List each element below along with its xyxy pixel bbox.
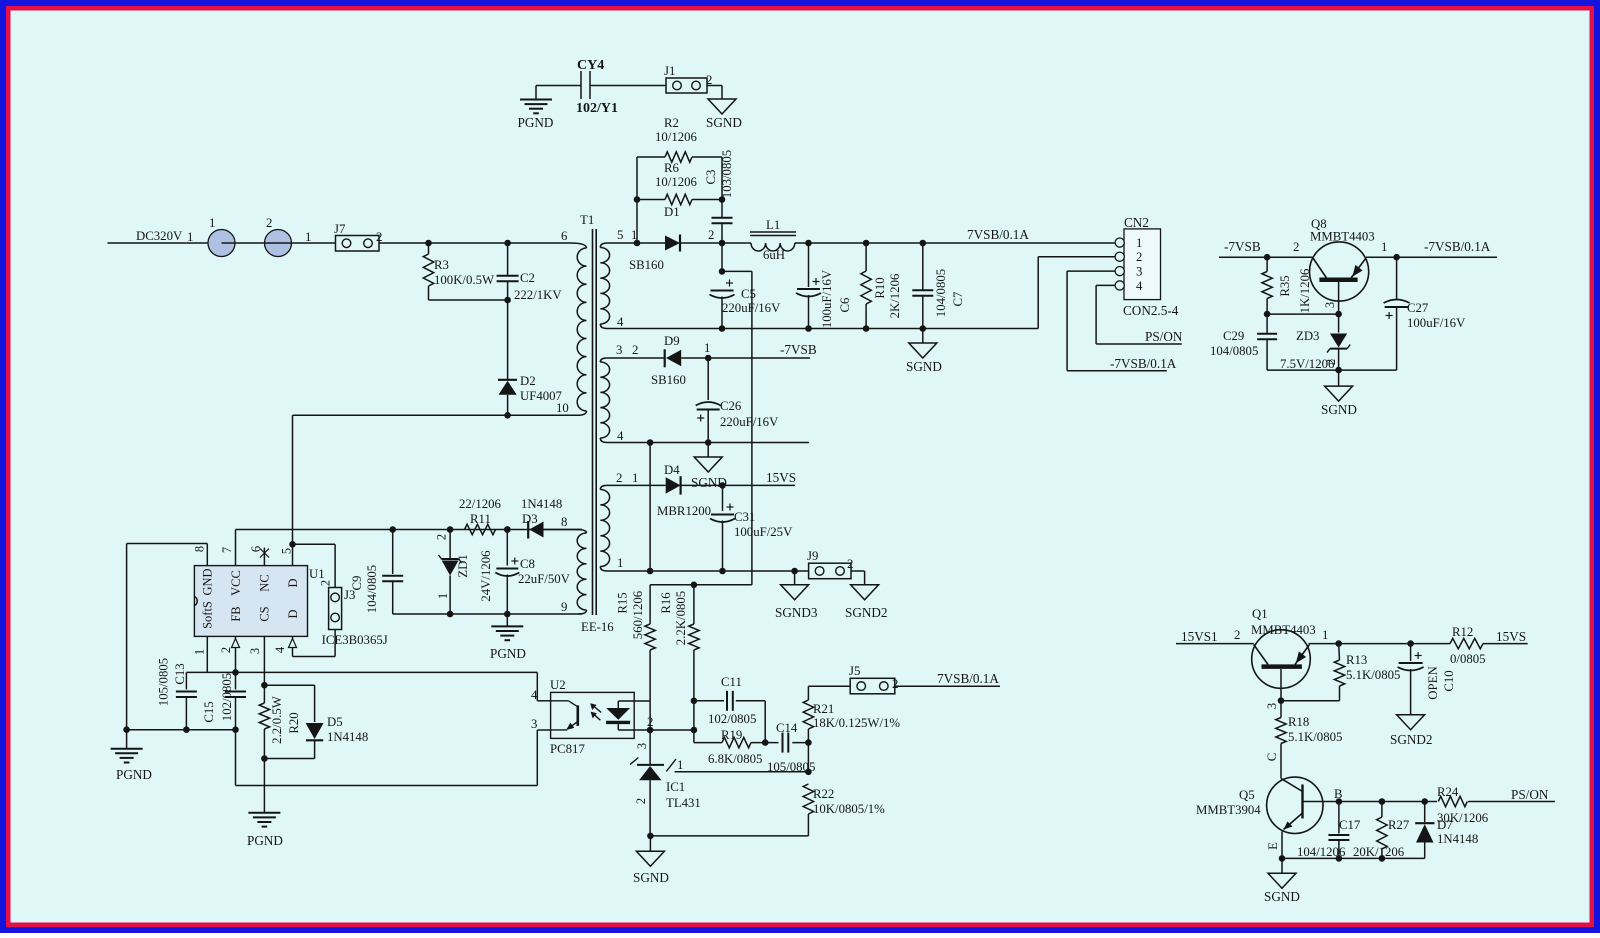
svg-text:R22: R22 bbox=[813, 787, 834, 801]
svg-text:2.2K/0805: 2.2K/0805 bbox=[674, 591, 688, 645]
svg-text:D7: D7 bbox=[1437, 818, 1453, 832]
svg-text:VCC: VCC bbox=[229, 570, 243, 596]
svg-text:GND: GND bbox=[201, 568, 215, 595]
svg-text:104/0805: 104/0805 bbox=[934, 269, 948, 317]
svg-text:SGND2: SGND2 bbox=[845, 605, 888, 620]
svg-text:2K/1206: 2K/1206 bbox=[888, 273, 902, 318]
svg-text:2: 2 bbox=[892, 677, 898, 691]
svg-text:-7VSB: -7VSB bbox=[1224, 239, 1261, 254]
svg-text:15VS: 15VS bbox=[766, 470, 796, 485]
svg-text:CY4: CY4 bbox=[577, 58, 604, 73]
svg-text:1: 1 bbox=[193, 649, 207, 655]
svg-text:C13: C13 bbox=[173, 663, 187, 684]
svg-text:100uF/25V: 100uF/25V bbox=[734, 525, 793, 539]
svg-text:15VS1: 15VS1 bbox=[1181, 629, 1218, 644]
svg-text:104/0805: 104/0805 bbox=[365, 565, 379, 613]
svg-text:R12: R12 bbox=[1452, 625, 1473, 639]
svg-text:D9: D9 bbox=[664, 334, 680, 348]
svg-text:OPEN: OPEN bbox=[1426, 666, 1440, 699]
svg-text:C26: C26 bbox=[720, 399, 742, 413]
svg-text:E: E bbox=[1266, 842, 1280, 850]
svg-text:3: 3 bbox=[248, 648, 262, 654]
svg-text:R10: R10 bbox=[873, 277, 887, 298]
svg-text:C8: C8 bbox=[520, 557, 535, 571]
svg-text:2: 2 bbox=[1234, 628, 1240, 642]
svg-text:NC: NC bbox=[258, 574, 272, 591]
svg-text:C15: C15 bbox=[202, 701, 216, 722]
svg-text:PGND: PGND bbox=[518, 115, 554, 130]
svg-text:2: 2 bbox=[634, 798, 648, 804]
svg-text:R2: R2 bbox=[664, 116, 679, 130]
svg-text:7: 7 bbox=[220, 547, 234, 553]
svg-text:C7: C7 bbox=[951, 291, 965, 307]
svg-text:L1: L1 bbox=[766, 218, 780, 232]
svg-text:22/1206: 22/1206 bbox=[459, 497, 502, 511]
svg-text:8: 8 bbox=[193, 546, 207, 552]
svg-text:C14: C14 bbox=[776, 721, 798, 735]
svg-text:R24: R24 bbox=[1437, 785, 1459, 799]
svg-text:C11: C11 bbox=[721, 675, 742, 689]
svg-text:U2: U2 bbox=[550, 678, 566, 692]
svg-text:1: 1 bbox=[677, 758, 683, 772]
svg-text:D: D bbox=[286, 609, 300, 618]
svg-text:CON2.5-4: CON2.5-4 bbox=[1123, 303, 1179, 318]
svg-text:10/1206: 10/1206 bbox=[655, 175, 698, 189]
svg-text:220uF/16V: 220uF/16V bbox=[720, 415, 779, 429]
svg-text:CN2: CN2 bbox=[1124, 215, 1149, 230]
svg-text:PGND: PGND bbox=[247, 833, 283, 848]
svg-text:1K/1206: 1K/1206 bbox=[1298, 268, 1312, 313]
svg-text:10/1206: 10/1206 bbox=[655, 130, 698, 144]
svg-text:U1: U1 bbox=[309, 567, 325, 581]
svg-text:PS/ON: PS/ON bbox=[1145, 329, 1183, 344]
svg-text:5.1K/0805: 5.1K/0805 bbox=[1346, 668, 1400, 682]
svg-text:FB: FB bbox=[229, 606, 243, 621]
svg-text:6uH: 6uH bbox=[763, 248, 785, 262]
svg-text:EE-16: EE-16 bbox=[581, 620, 614, 634]
svg-text:1: 1 bbox=[209, 216, 215, 230]
svg-text:24V/1206: 24V/1206 bbox=[479, 550, 493, 602]
svg-text:1: 1 bbox=[632, 471, 638, 485]
svg-text:105/0805: 105/0805 bbox=[157, 658, 171, 706]
svg-text:102/0805: 102/0805 bbox=[708, 712, 756, 726]
svg-text:PGND: PGND bbox=[490, 646, 526, 661]
svg-text:R20: R20 bbox=[287, 712, 301, 733]
svg-text:10: 10 bbox=[556, 401, 569, 415]
svg-text:C17: C17 bbox=[1339, 818, 1361, 832]
svg-text:C5: C5 bbox=[741, 287, 756, 301]
svg-text:2: 2 bbox=[632, 343, 638, 357]
svg-text:15VS: 15VS bbox=[1496, 629, 1526, 644]
svg-text:100K/0.5W: 100K/0.5W bbox=[434, 273, 495, 287]
svg-text:3: 3 bbox=[1323, 302, 1337, 308]
svg-text:2: 2 bbox=[1293, 240, 1299, 254]
svg-text:100uF/16V: 100uF/16V bbox=[820, 269, 834, 328]
svg-text:6.8K/0805: 6.8K/0805 bbox=[708, 752, 762, 766]
svg-text:220uF/16V: 220uF/16V bbox=[722, 301, 781, 315]
svg-text:2: 2 bbox=[1324, 359, 1338, 365]
svg-text:J5: J5 bbox=[849, 664, 860, 678]
svg-text:D2: D2 bbox=[520, 374, 536, 388]
svg-text:R21: R21 bbox=[813, 702, 834, 716]
svg-text:103/0805: 103/0805 bbox=[720, 150, 734, 198]
svg-text:PGND: PGND bbox=[116, 767, 152, 782]
svg-text:104/0805: 104/0805 bbox=[1210, 344, 1258, 358]
svg-text:J7: J7 bbox=[334, 222, 346, 236]
svg-text:1: 1 bbox=[436, 593, 450, 599]
svg-text:100uF/16V: 100uF/16V bbox=[1407, 316, 1466, 330]
svg-text:CS: CS bbox=[258, 606, 272, 621]
svg-text:R19: R19 bbox=[721, 728, 742, 742]
svg-text:5: 5 bbox=[617, 228, 623, 242]
svg-text:MBR1200: MBR1200 bbox=[657, 504, 711, 518]
svg-text:3: 3 bbox=[635, 743, 649, 749]
svg-text:2.2/0.5W: 2.2/0.5W bbox=[270, 695, 284, 744]
svg-text:R16: R16 bbox=[659, 592, 673, 614]
svg-text:SoftS: SoftS bbox=[201, 601, 215, 629]
svg-text:2: 2 bbox=[266, 216, 272, 230]
svg-text:C3: C3 bbox=[704, 170, 718, 185]
svg-text:J9: J9 bbox=[807, 549, 818, 563]
svg-text:IC1: IC1 bbox=[666, 780, 685, 794]
svg-text:SGND2: SGND2 bbox=[1390, 732, 1433, 747]
svg-text:1N4148: 1N4148 bbox=[521, 497, 562, 511]
svg-text:C6: C6 bbox=[838, 297, 852, 313]
svg-text:2: 2 bbox=[435, 534, 449, 540]
svg-text:ICE3B0365J: ICE3B0365J bbox=[322, 633, 388, 647]
svg-text:SGND: SGND bbox=[633, 870, 669, 885]
svg-text:2: 2 bbox=[616, 471, 622, 485]
svg-text:C10: C10 bbox=[1442, 670, 1456, 691]
svg-text:T1: T1 bbox=[580, 213, 594, 227]
svg-text:C9: C9 bbox=[350, 576, 364, 591]
svg-text:1: 1 bbox=[187, 230, 193, 244]
svg-text:D1: D1 bbox=[664, 205, 680, 219]
svg-text:2: 2 bbox=[708, 228, 714, 242]
svg-text:6: 6 bbox=[561, 229, 568, 243]
svg-text:-7VSB/0.1A: -7VSB/0.1A bbox=[1424, 239, 1491, 254]
svg-text:9: 9 bbox=[561, 600, 567, 614]
svg-text:8: 8 bbox=[561, 515, 567, 529]
svg-text:7VSB/0.1A: 7VSB/0.1A bbox=[967, 227, 1029, 242]
svg-text:D4: D4 bbox=[664, 463, 680, 477]
svg-text:MMBT4403: MMBT4403 bbox=[1251, 623, 1316, 637]
svg-text:PS/ON: PS/ON bbox=[1511, 787, 1549, 802]
svg-text:D5: D5 bbox=[327, 715, 343, 729]
svg-text:1: 1 bbox=[1136, 236, 1142, 250]
svg-text:C27: C27 bbox=[1407, 301, 1429, 315]
svg-text:B: B bbox=[1334, 787, 1343, 801]
svg-text:22uF/50V: 22uF/50V bbox=[518, 572, 571, 586]
svg-text:ZD1: ZD1 bbox=[456, 554, 470, 577]
svg-text:R6: R6 bbox=[664, 161, 680, 175]
svg-text:4: 4 bbox=[617, 315, 624, 329]
svg-text:3: 3 bbox=[616, 343, 622, 357]
svg-text:C: C bbox=[1265, 753, 1279, 762]
svg-text:102/Y1: 102/Y1 bbox=[576, 101, 618, 116]
svg-text:SGND: SGND bbox=[706, 115, 742, 130]
svg-text:560/1206: 560/1206 bbox=[631, 590, 645, 639]
svg-text:R18: R18 bbox=[1288, 715, 1309, 729]
svg-text:-7VSB/0.1A: -7VSB/0.1A bbox=[1110, 356, 1177, 371]
svg-text:SB160: SB160 bbox=[629, 258, 664, 272]
svg-text:1N4148: 1N4148 bbox=[327, 730, 368, 744]
svg-text:20K/1206: 20K/1206 bbox=[1353, 845, 1405, 859]
svg-text:3: 3 bbox=[1136, 265, 1142, 279]
svg-text:1: 1 bbox=[617, 556, 623, 570]
svg-text:D: D bbox=[286, 578, 300, 587]
svg-text:C29: C29 bbox=[1223, 329, 1244, 343]
svg-text:1: 1 bbox=[704, 341, 710, 355]
svg-text:MMBT3904: MMBT3904 bbox=[1196, 803, 1261, 817]
svg-text:1: 1 bbox=[305, 230, 311, 244]
svg-text:R35: R35 bbox=[1278, 275, 1292, 296]
svg-text:0/0805: 0/0805 bbox=[1450, 652, 1486, 666]
svg-text:4: 4 bbox=[273, 646, 287, 653]
svg-text:4: 4 bbox=[1136, 279, 1143, 293]
svg-text:7VSB/0.1A: 7VSB/0.1A bbox=[937, 671, 999, 686]
svg-text:1: 1 bbox=[1381, 240, 1387, 254]
svg-text:SB160: SB160 bbox=[651, 373, 686, 387]
svg-text:SGND3: SGND3 bbox=[775, 605, 818, 620]
svg-text:D3: D3 bbox=[522, 512, 538, 526]
svg-text:R27: R27 bbox=[1388, 818, 1410, 832]
svg-text:3: 3 bbox=[531, 717, 537, 731]
svg-text:18K/0.125W/1%: 18K/0.125W/1% bbox=[813, 716, 900, 730]
svg-text:R11: R11 bbox=[470, 512, 491, 526]
svg-text:2: 2 bbox=[847, 557, 853, 571]
svg-text:3: 3 bbox=[1265, 703, 1279, 709]
svg-text:MMBT4403: MMBT4403 bbox=[1310, 230, 1375, 244]
svg-text:Q1: Q1 bbox=[1252, 607, 1268, 621]
svg-text:R15: R15 bbox=[616, 592, 630, 613]
svg-text:SGND: SGND bbox=[1264, 889, 1300, 904]
svg-text:5: 5 bbox=[280, 548, 294, 554]
svg-text:222/1KV: 222/1KV bbox=[514, 288, 562, 302]
svg-text:R3: R3 bbox=[434, 258, 449, 272]
svg-text:1: 1 bbox=[1322, 628, 1328, 642]
svg-text:104/1206: 104/1206 bbox=[1297, 845, 1346, 859]
svg-text:1N4148: 1N4148 bbox=[1437, 832, 1478, 846]
svg-text:5.1K/0805: 5.1K/0805 bbox=[1288, 730, 1342, 744]
svg-text:4: 4 bbox=[617, 429, 624, 443]
svg-text:Q5: Q5 bbox=[1239, 788, 1255, 802]
svg-text:2: 2 bbox=[319, 580, 333, 586]
svg-text:SGND: SGND bbox=[1321, 402, 1357, 417]
svg-text:-7VSB: -7VSB bbox=[780, 342, 817, 357]
svg-text:DC320V: DC320V bbox=[136, 229, 183, 243]
svg-text:J1: J1 bbox=[664, 64, 675, 78]
svg-text:ZD3: ZD3 bbox=[1296, 329, 1319, 343]
svg-text:10K/0805/1%: 10K/0805/1% bbox=[813, 802, 885, 816]
svg-text:2: 2 bbox=[1136, 250, 1142, 264]
svg-text:C31: C31 bbox=[734, 510, 755, 524]
svg-text:PC817: PC817 bbox=[550, 742, 585, 756]
svg-text:TL431: TL431 bbox=[666, 796, 701, 810]
svg-text:SGND: SGND bbox=[906, 359, 942, 374]
svg-text:102/0805: 102/0805 bbox=[220, 673, 234, 721]
svg-text:C2: C2 bbox=[520, 271, 535, 285]
svg-text:2: 2 bbox=[376, 230, 382, 244]
svg-text:R13: R13 bbox=[1346, 653, 1367, 667]
